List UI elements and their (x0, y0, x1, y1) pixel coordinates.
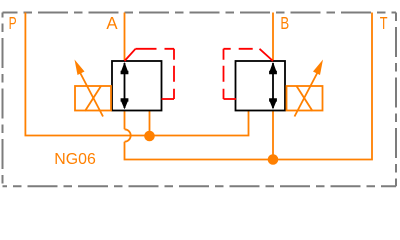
wire: left valve bottom port riser (149, 111, 151, 136)
enclosure plate outline top edge (3, 12, 397, 14)
enclosure plate outline bottom edge (3, 185, 397, 187)
valve V1 pilot line (red) (125, 49, 136, 61)
valve V2 pilot line (red) (260, 49, 274, 61)
junction dot at T rail (268, 154, 279, 165)
wire: P line (down from port P, right to junction) (25, 13, 149, 136)
valve V2 body (236, 61, 286, 111)
valve V2 adjustment box with cross (287, 86, 323, 111)
valve V2 cross stroke (297, 86, 313, 111)
valve V1 lower arrowhead (121, 98, 129, 109)
svg-text:NG06: NG06 (54, 151, 96, 168)
junction dot at P branch (144, 131, 155, 142)
wire: P branch to right valve bottom port (150, 111, 249, 136)
valve V1 adjustment arrow (80, 73, 103, 117)
valve V1 cross stroke (85, 86, 101, 111)
wire: T line (down from port T, left to junction) (273, 13, 372, 160)
enclosure plate outline left edge (2, 13, 4, 187)
enclosure plate outline right edge (395, 13, 397, 187)
svg-text:T: T (380, 13, 388, 33)
wire: B line from port B to right valve (272, 13, 274, 62)
svg-text:B: B (280, 13, 289, 33)
valve V2 adjustment arrow (295, 73, 318, 117)
svg-text:A: A (106, 13, 117, 33)
valve V1 body (112, 61, 162, 111)
wire: A line from port A to left valve (124, 13, 126, 62)
wire: A line bottom with crossover hop to T rail (125, 111, 274, 160)
valve V2 lower arrowhead (269, 98, 277, 109)
valve V1 flow path line (124, 63, 126, 108)
wire: B line bottom to junction (272, 111, 274, 160)
valve V2 upper arrowhead (269, 62, 277, 74)
svg-text:P: P (9, 13, 17, 33)
valve V1 adjustment box with cross (75, 86, 111, 111)
valve V1 upper arrowhead (121, 62, 129, 74)
valve V2 flow path line (272, 63, 274, 108)
